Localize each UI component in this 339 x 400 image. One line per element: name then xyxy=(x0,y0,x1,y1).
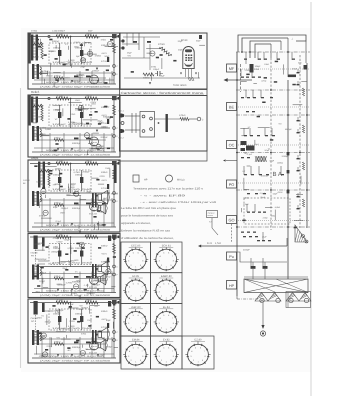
wire seg 10 xyxy=(42,245,44,251)
svg-text:25µF: 25µF xyxy=(262,236,267,239)
label value 13 xyxy=(49,50,56,53)
label value 4 xyxy=(100,354,106,357)
label 4,7M xyxy=(68,325,75,328)
capacitor chip 40 xyxy=(262,240,265,241)
label value 2 xyxy=(178,48,184,51)
label 470k right xyxy=(101,122,108,125)
tube element 22-3 xyxy=(96,144,101,149)
capacitor top right xyxy=(199,35,202,39)
capacitor rail blob 3 xyxy=(287,190,290,193)
wire seg 4 xyxy=(146,48,161,50)
label value 3 xyxy=(34,243,41,246)
label tube name xyxy=(89,213,97,216)
wire seg 8 xyxy=(90,305,100,307)
wire drop 6 xyxy=(103,337,105,358)
svg-text:50pF: 50pF xyxy=(105,55,111,58)
wire seg 4 xyxy=(53,82,55,87)
svg-text:BE: BE xyxy=(229,105,235,110)
capacitor chip 44-8 xyxy=(77,243,80,245)
label value 17 xyxy=(56,283,62,286)
label value 20 xyxy=(77,308,84,311)
svg-text:25µF: 25µF xyxy=(127,51,133,54)
wire v1 xyxy=(70,99,72,129)
capacitor chip 11-1 xyxy=(55,79,58,81)
svg-text:EY.82: EY.82 xyxy=(163,338,170,341)
capacitor edge 6 xyxy=(297,167,300,171)
svg-text:470kΩ: 470kΩ xyxy=(95,55,102,58)
wire drop 7 xyxy=(111,198,113,227)
svg-text:400kΩ: 400kΩ xyxy=(101,310,108,313)
label value 24 xyxy=(63,327,70,330)
label value 7 xyxy=(54,183,61,186)
label value top xyxy=(86,95,92,98)
svg-text:CADRE: CADRE xyxy=(23,179,31,182)
wire dotted band 1 xyxy=(236,68,310,70)
svg-text:470Ω: 470Ω xyxy=(99,175,105,178)
wire drop 1 xyxy=(41,133,43,152)
capacitor chip 22-1 xyxy=(104,106,107,108)
label value 14 xyxy=(99,145,105,148)
wire seg 3 xyxy=(85,41,92,43)
wire v1 xyxy=(70,164,72,194)
label P.U.2 xyxy=(119,137,125,140)
capacitor chassis chip 4 xyxy=(270,139,273,141)
transformer output xyxy=(32,64,39,79)
tube socket EABC.80 xyxy=(151,273,183,304)
label value 10 xyxy=(40,272,47,275)
wire seg 8 xyxy=(91,148,105,150)
svg-text:6,8kΩ: 6,8kΩ xyxy=(45,128,51,131)
wire seg 13 xyxy=(68,307,79,309)
wire lower h1 xyxy=(34,72,112,74)
svg-text:2000pF: 2000pF xyxy=(81,306,89,309)
label 2000pF xyxy=(53,313,61,316)
wire seg 15 xyxy=(89,49,91,57)
label value 7 xyxy=(56,241,63,244)
wire chassis seg 17 xyxy=(240,81,247,83)
box right triangles xyxy=(286,292,311,308)
svg-text:2MΩ: 2MΩ xyxy=(76,279,81,282)
svg-text:50pF: 50pF xyxy=(53,206,59,209)
label above box1 c xyxy=(88,30,93,33)
wire drop 7 xyxy=(111,133,113,152)
svg-text:2000pF: 2000pF xyxy=(75,174,83,177)
capacitor chip 33-4 xyxy=(102,224,105,226)
capacitor chip 39 xyxy=(257,240,260,241)
label value 6 xyxy=(127,51,133,54)
svg-text:2xEF.80: 2xEF.80 xyxy=(131,306,141,309)
label value 9 xyxy=(70,303,74,306)
svg-text:4,7MΩ: 4,7MΩ xyxy=(73,171,80,174)
svg-text:(A2M) 25µF 470kΩ 50µF HP 12: (A2M) 25µF 470kΩ 50µF HP 12,5kΩ/800 xyxy=(40,360,111,363)
wire twisted a xyxy=(131,113,133,133)
wire junction xyxy=(70,36,72,38)
svg-text:-1,5V: -1,5V xyxy=(83,284,89,287)
capacitor chip 66-2 xyxy=(173,60,176,62)
socket pin 4 xyxy=(150,128,153,131)
label 400k right xyxy=(101,171,108,174)
capacitor C4 xyxy=(74,276,79,278)
block: cartouche tube box xyxy=(120,33,208,89)
ground arrow tube a xyxy=(180,73,182,75)
speaker HP xyxy=(98,261,110,275)
svg-text:2000pF: 2000pF xyxy=(282,155,290,158)
capacitor chip 2 xyxy=(258,59,261,60)
wire seg 6 xyxy=(71,290,73,295)
coil GO cadre bar xyxy=(34,301,38,315)
label value 21 xyxy=(34,129,37,132)
wire to terminal xyxy=(189,118,197,120)
wire seg 11 xyxy=(60,260,71,262)
wire seg 4 xyxy=(61,338,71,340)
speaker HP xyxy=(98,190,110,204)
wire corner 2 xyxy=(242,38,288,52)
label PO xyxy=(31,252,39,258)
label value 16 xyxy=(81,108,89,111)
block: ampli Relief box xyxy=(28,95,120,157)
svg-text:5000pF 1MΩ 0,1µF EL.84 470: 5000pF 1MΩ 0,1µF EL.84 470kΩ xyxy=(46,355,105,358)
wire rail left xyxy=(236,52,238,296)
svg-text:ECC.83: ECC.83 xyxy=(89,213,97,216)
wire twisted b xyxy=(135,113,137,133)
capacitor corner top xyxy=(112,161,119,165)
socket outline xyxy=(140,112,155,138)
label value 15 xyxy=(56,337,60,340)
svg-text:HP: HP xyxy=(229,284,235,288)
wire seg 3 xyxy=(44,195,46,198)
capacitor chip 55-6 xyxy=(96,316,99,318)
wire lower h1 xyxy=(34,199,112,201)
wire h mid xyxy=(36,127,110,129)
label GO xyxy=(31,317,39,323)
wire stub 22 xyxy=(250,258,252,266)
coil L2 xyxy=(40,194,41,202)
label pu a xyxy=(243,249,251,252)
label chassis value 5 xyxy=(245,69,250,72)
svg-text:400kΩ: 400kΩ xyxy=(54,275,61,278)
node HP xyxy=(227,281,237,290)
capacitor chip 22-4 xyxy=(110,116,113,118)
wire lower h1 xyxy=(34,338,112,340)
svg-text:1MΩ: 1MΩ xyxy=(87,319,92,322)
wire seg 1 xyxy=(90,291,92,295)
label 50000pF xyxy=(72,142,81,145)
capacitor chip 44-9 xyxy=(41,267,44,269)
junction 11 xyxy=(236,226,238,228)
coil L1b xyxy=(32,43,42,45)
junction 10 xyxy=(287,189,289,191)
capacitor chip 22-8 xyxy=(95,111,98,113)
label value 22 xyxy=(96,206,102,209)
label chassis value 8 xyxy=(278,122,282,125)
capacitor chip 33-2 xyxy=(42,187,45,189)
wire chassis seg 12 xyxy=(300,176,302,185)
wire stub 16 xyxy=(250,166,252,175)
wire A v5 xyxy=(149,44,151,70)
block: cartouche title bar xyxy=(120,90,208,96)
label value top xyxy=(86,234,92,237)
label value 9 xyxy=(78,76,84,79)
capacitor chip 18 xyxy=(250,135,253,136)
capacitor chip 33-10 xyxy=(73,192,76,194)
capacitor chip 11-5 xyxy=(63,64,66,66)
speaker HP 2 xyxy=(98,340,107,351)
terminal circle 1 xyxy=(260,298,264,302)
wire corner 1 xyxy=(238,35,306,52)
coil triangle 3 xyxy=(286,293,299,302)
wire seg 4 xyxy=(38,260,48,262)
svg-text:1,5kΩ: 1,5kΩ xyxy=(33,56,39,59)
svg-text:6,8kΩ: 6,8kΩ xyxy=(275,206,281,209)
note: tube EF.80 text xyxy=(121,206,177,240)
svg-text:50pF: 50pF xyxy=(88,30,93,33)
capacitor chip 29 xyxy=(247,193,250,194)
svg-text:470Ω: 470Ω xyxy=(99,145,105,148)
tube element 55-2 xyxy=(41,333,46,338)
wire R43 up xyxy=(286,238,288,246)
capacitor chip 23 xyxy=(247,157,250,158)
svg-text:20kΩ: 20kΩ xyxy=(86,299,92,302)
label value 3 xyxy=(46,75,53,78)
page right border xyxy=(310,2,312,396)
wire rail left2 xyxy=(240,64,242,92)
wire cadre drop xyxy=(35,250,37,268)
svg-text:1MΩ: 1MΩ xyxy=(271,215,276,218)
wire seg 8 xyxy=(37,263,45,265)
label value 18 xyxy=(66,281,73,284)
label +6/V1 xyxy=(101,52,108,55)
tube socket EM.84 xyxy=(121,336,151,369)
capacitor chip 22-11 xyxy=(67,118,70,120)
ground arrow 3 xyxy=(97,354,99,356)
label mid values xyxy=(52,123,93,126)
capacitor chip 11-2 xyxy=(49,39,52,41)
label chassis value 24 xyxy=(277,191,284,194)
terminal plug 1 xyxy=(119,39,125,42)
label value 5 xyxy=(65,43,68,46)
capacitor C4 xyxy=(74,203,79,205)
wire stub 2 xyxy=(257,52,259,60)
wire seg 7 xyxy=(53,72,61,74)
label value 25 xyxy=(37,317,42,320)
capacitor edge 2 xyxy=(297,81,300,85)
label value 6 xyxy=(92,69,100,72)
wire stub 12 xyxy=(249,128,251,136)
wire rail 300 dashed xyxy=(299,55,301,228)
resistor R1 xyxy=(56,162,69,165)
tube pins xyxy=(186,69,192,77)
capacitor corner 5a xyxy=(108,301,111,307)
label value 5 xyxy=(105,275,111,278)
wire chassis seg 16 xyxy=(253,82,257,84)
tube element 44-1 xyxy=(79,242,84,247)
label value 19 xyxy=(97,120,103,123)
label value 16 xyxy=(83,284,89,287)
svg-text:- « - ave: - « - avec cathodine PX4Lr 10KΩ,par volt xyxy=(140,201,216,204)
label value 14 xyxy=(81,58,87,61)
label CADRE BE xyxy=(23,179,31,185)
svg-text:5000pF 1MΩ 0,1µF EL.84 470: 5000pF 1MΩ 0,1µF EL.84 470kΩ xyxy=(46,290,105,293)
transformer BF antenna coil xyxy=(38,162,45,188)
svg-text:0,1µF: 0,1µF xyxy=(247,153,253,156)
svg-text:0,5µF: 0,5µF xyxy=(64,239,70,242)
svg-text:P.U.2: P.U.2 xyxy=(119,137,125,140)
svg-text:400kΩ: 400kΩ xyxy=(54,74,61,77)
wire seg 1 xyxy=(33,122,37,124)
capacitor chip 33-12 xyxy=(49,173,52,175)
wire drop 5 xyxy=(91,71,93,84)
capacitor chip 11-4 xyxy=(38,46,41,48)
label 400k xyxy=(54,136,61,139)
svg-text:6,8kΩ: 6,8kΩ xyxy=(40,127,46,130)
label value 20 xyxy=(39,215,46,218)
label value 13 xyxy=(51,150,58,153)
ground arrow 2 xyxy=(71,354,73,356)
label 4,7M xyxy=(68,59,75,62)
svg-text:8µF: 8µF xyxy=(70,303,74,306)
wire stub 7 xyxy=(251,69,253,78)
label 30pF xyxy=(196,40,201,43)
ground arrow 3 xyxy=(97,223,99,225)
svg-text:100pF: 100pF xyxy=(292,67,298,70)
label bottom values 2 xyxy=(46,149,105,152)
capacitor chip 44-5 xyxy=(113,256,116,258)
svg-text:2000pF: 2000pF xyxy=(92,69,100,72)
label tube name xyxy=(89,148,97,151)
node BA xyxy=(273,171,282,178)
arrow mid xyxy=(223,159,237,161)
block: pick-up connection box xyxy=(120,96,208,152)
svg-text:ECH.81: ECH.81 xyxy=(162,244,172,247)
wire band separator 3 xyxy=(236,114,310,116)
ground arrow mid xyxy=(96,195,98,197)
svg-text:+6V: +6V xyxy=(41,184,45,187)
wire drop 1 xyxy=(41,337,43,358)
label value 17 xyxy=(55,311,61,314)
capacitor chip 38 xyxy=(253,232,256,233)
svg-text:R.43: R.43 xyxy=(207,242,213,245)
label 400k xyxy=(54,275,61,278)
wire dotted band 5 xyxy=(236,220,310,222)
svg-text:+250V: +250V xyxy=(277,191,284,194)
node BE xyxy=(227,103,238,111)
wire stub 5 xyxy=(291,52,293,60)
label value 3 xyxy=(87,319,92,322)
capacitor chip 43 xyxy=(263,267,266,268)
label value 15 xyxy=(70,113,76,116)
label value 3 xyxy=(99,175,105,178)
svg-text:20kΩ: 20kΩ xyxy=(86,160,92,163)
label 470k right xyxy=(101,261,108,264)
resistor R1 xyxy=(56,97,69,100)
legend MA circle xyxy=(166,175,185,182)
label value 2 xyxy=(94,194,97,197)
label value 9 xyxy=(37,242,45,245)
wire seg 9 xyxy=(46,314,48,325)
capacitor C1 xyxy=(58,105,61,126)
capacitor chip 11-12 xyxy=(110,39,113,41)
wire seg 10 xyxy=(66,318,68,327)
wire chassis seg 3 xyxy=(293,104,303,106)
capacitor chip 3 xyxy=(264,59,267,60)
wire drop 3 xyxy=(63,272,65,293)
coil L2 xyxy=(40,268,41,276)
wire bottom xyxy=(124,77,200,79)
label chassis value 21 xyxy=(248,126,251,129)
svg-text:1MΩ: 1MΩ xyxy=(105,167,110,170)
capacitor chip 33-9 xyxy=(60,186,63,188)
label chassis value 25 xyxy=(261,175,270,178)
wire h mid xyxy=(36,65,110,67)
tube grid chips xyxy=(185,55,192,62)
capacitor chip 33-6 xyxy=(34,165,37,167)
label value 5 xyxy=(81,332,87,335)
capacitor chip 55-12 xyxy=(77,321,80,323)
svg-text:100pF: 100pF xyxy=(41,258,48,261)
svg-text:secteur: secteur xyxy=(208,214,214,217)
svg-text:12kΩ: 12kΩ xyxy=(70,113,76,116)
svg-text:4,7MΩ: 4,7MΩ xyxy=(67,247,74,250)
resistor edge 4 xyxy=(302,199,304,207)
wire bottom bus xyxy=(32,226,116,228)
label value 18 xyxy=(54,309,60,312)
svg-text:2000pF: 2000pF xyxy=(93,284,101,287)
wire top of cadre xyxy=(244,276,308,278)
capacitor C5 xyxy=(86,276,91,278)
legend HP square xyxy=(133,175,148,182)
wire chassis seg 2 xyxy=(243,178,245,190)
svg-text:47kΩ: 47kΩ xyxy=(103,126,109,129)
label 4,7M xyxy=(68,260,75,263)
capacitor corner top xyxy=(112,34,119,38)
junction 9 xyxy=(306,114,308,116)
wire seg 12 xyxy=(87,151,89,155)
capacitor chip 16 xyxy=(252,111,255,112)
capacitor blob a xyxy=(251,266,256,269)
frame antenna cadre xyxy=(244,279,308,293)
label value 10 xyxy=(94,305,98,308)
speaker HP 2 xyxy=(98,274,107,285)
svg-text:+6V: +6V xyxy=(127,54,131,57)
capacitor rail blob 2 xyxy=(287,170,290,173)
capacitor chip 17 xyxy=(244,135,247,136)
label +6/V1 xyxy=(101,179,108,182)
coil L1b xyxy=(32,105,42,107)
capacitor edge 7 xyxy=(297,193,300,197)
svg-text:1MΩ: 1MΩ xyxy=(66,193,71,196)
svg-text:20kΩ: 20kΩ xyxy=(86,234,92,237)
arrow R43 xyxy=(198,242,287,247)
label 400k right xyxy=(101,245,108,248)
label 400k right xyxy=(101,310,108,313)
label value 3 xyxy=(41,133,46,136)
label value 6 xyxy=(45,128,51,131)
capacitor chip 11-7 xyxy=(104,82,107,84)
wire stub 14 xyxy=(271,128,273,136)
svg-text:5000pF 1MΩ 0,1µF EL.84 470: 5000pF 1MΩ 0,1µF EL.84 470kΩ xyxy=(46,81,105,84)
svg-text:MF: MF xyxy=(229,66,235,71)
svg-text:470Ω: 470Ω xyxy=(151,66,157,69)
wire top left xyxy=(123,36,160,38)
svg-text:12kΩ: 12kΩ xyxy=(75,99,81,102)
wire chassis seg 18 xyxy=(241,208,243,212)
svg-text:B A: B A xyxy=(273,171,282,178)
label 50000pF xyxy=(72,207,81,210)
label 2000pF xyxy=(53,247,61,250)
label chassis value 1 xyxy=(261,79,266,82)
resistor edge 2 xyxy=(302,125,304,133)
label chassis value 19 xyxy=(275,206,281,209)
